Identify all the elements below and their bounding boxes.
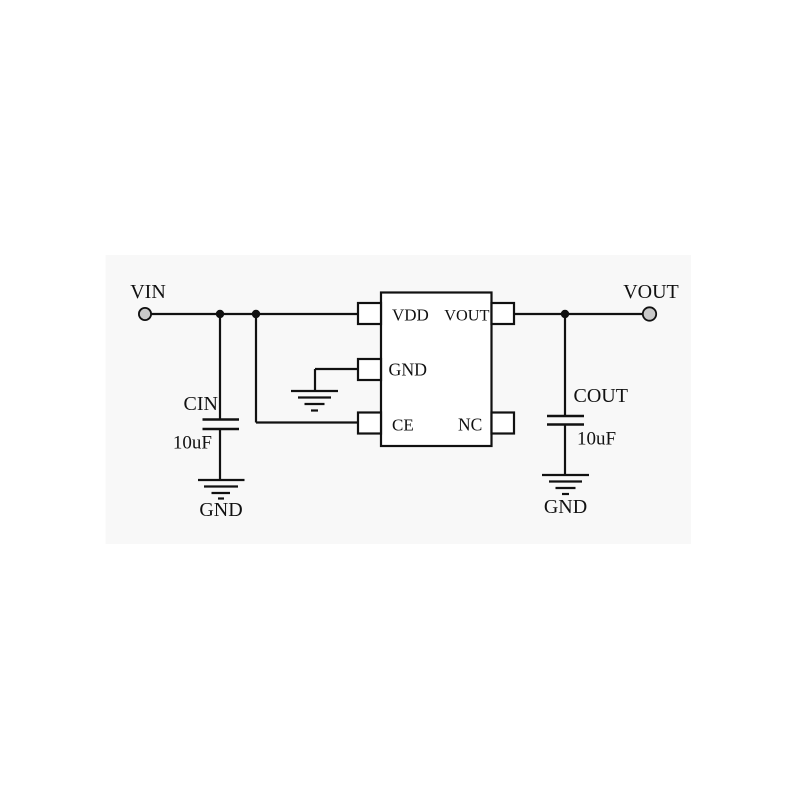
svg-text:CE: CE — [392, 416, 414, 435]
junction dot node C — [561, 310, 569, 318]
terminal VIN — [139, 308, 151, 320]
wire COUT bottom — [564, 425, 566, 476]
svg-text:VOUT: VOUT — [444, 306, 489, 325]
junction dot node B — [252, 310, 260, 318]
svg-text:NC: NC — [458, 415, 482, 435]
pin VOUT box — [492, 303, 515, 324]
junction dot node A — [216, 310, 224, 318]
capacitor CIN — [203, 420, 240, 430]
wire GND pin vertical drop — [314, 369, 316, 391]
wire VIN to VDD pin — [150, 313, 359, 315]
svg-text:CIN: CIN — [184, 393, 218, 415]
wire CE branch horizontal — [256, 421, 359, 423]
wire VOUT pin to terminal — [514, 313, 645, 315]
svg-text:VDD: VDD — [392, 306, 429, 325]
svg-text:VOUT: VOUT — [623, 281, 679, 303]
svg-text:COUT: COUT — [574, 385, 628, 407]
wire CIN bottom — [219, 429, 221, 480]
terminal VOUT — [643, 307, 656, 320]
wire CE branch vertical — [255, 314, 257, 423]
IC U1 body — [381, 293, 492, 447]
pin VDD box — [358, 303, 381, 324]
svg-text:GND: GND — [544, 496, 587, 518]
svg-text:GND: GND — [199, 499, 242, 521]
ground symbol below COUT — [542, 475, 589, 494]
svg-text:GND: GND — [389, 360, 428, 380]
pin NC box — [492, 413, 515, 434]
pin CE box — [358, 413, 381, 434]
ground symbol at GND pin — [291, 391, 338, 411]
pin GND box — [358, 359, 381, 380]
wire GND pin horizontal — [315, 368, 359, 370]
ground symbol below CIN — [198, 480, 245, 499]
capacitor COUT — [547, 416, 584, 425]
svg-text:VIN: VIN — [130, 281, 166, 303]
svg-text:10uF: 10uF — [577, 429, 616, 450]
svg-text:10uF: 10uF — [173, 433, 212, 454]
wire CIN top — [219, 314, 221, 419]
wire COUT top — [564, 314, 566, 416]
